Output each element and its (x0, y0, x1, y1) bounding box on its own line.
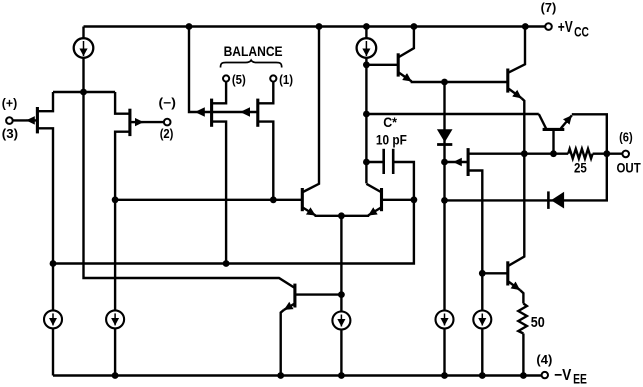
wire -Vee bottom rail (53, 374, 542, 376)
wire Q3 emitter (303, 208, 316, 216)
wire J4 source lead to pin 1 (258, 82, 274, 104)
wire Q5 emitter to rail (281, 310, 284, 376)
node rail-I5 junction (338, 372, 345, 379)
wire J1 gate lead (13, 119, 38, 121)
node B J4 drain junction (270, 196, 277, 203)
transistor Q6 bar (397, 53, 400, 76)
transistor Q7 bar (506, 69, 509, 93)
svg-text:10 pF: 10 pF (376, 132, 407, 147)
wire J5 gate lead (445, 161, 469, 163)
jfet J5 bar (467, 148, 470, 176)
node A J3 drain junction (223, 260, 230, 267)
jfet J4 gate arrow (240, 111, 251, 113)
wire R2 to -Vee rail (522, 334, 524, 376)
wire second stage emitter join left (315, 215, 342, 217)
current source I6 (436, 311, 454, 329)
node rail-I7 junction (479, 372, 486, 379)
terminal pin 2 (164, 119, 171, 126)
wire J3 source lead to pin 5 (212, 82, 227, 104)
node rail-Q6 junction (411, 23, 418, 30)
node Q5 base junction (338, 291, 345, 298)
jfet J4 bar (256, 99, 259, 127)
wire Q3 collector (303, 27, 319, 193)
wire Q7 emitter down to output node (522, 98, 525, 154)
wire tail node vertical to mirror (84, 92, 295, 288)
node J5 gate junction (441, 159, 448, 166)
svg-text:(4): (4) (536, 353, 552, 367)
svg-text:(6): (6) (619, 130, 633, 144)
wire +Vcc top rail (84, 25, 547, 27)
wire node B to Q3 base (115, 199, 302, 201)
wire node A feedback to cap (53, 162, 414, 264)
terminal pin 1 (270, 75, 276, 81)
wire J2 source lead (115, 92, 130, 114)
svg-text:(3): (3) (2, 127, 18, 141)
node output left junction (521, 150, 528, 157)
terminal pin 5 (223, 75, 229, 81)
transistor Q8 bar (543, 128, 565, 131)
svg-text:OUT: OUT (617, 161, 642, 176)
wire balance gate stem from rail (189, 27, 258, 113)
node output pin junction (603, 150, 610, 157)
jfet J5 gate arrow (453, 161, 462, 163)
svg-text:C*: C* (383, 115, 397, 130)
svg-text:CC: CC (574, 24, 589, 40)
wire J1 source lead (37, 92, 53, 111)
jfet J3 bar (210, 99, 213, 127)
transistor Q9 bar (506, 261, 509, 285)
svg-text:(+): (+) (2, 96, 17, 110)
wire Q8 emitter diagonal (561, 115, 572, 128)
wire J1 drain lead down to node (37, 128, 53, 375)
wire Q9 collector vertical (509, 154, 525, 266)
svg-text:(−): (−) (159, 96, 176, 110)
node rail-J2 junction (112, 372, 119, 379)
transistor Q3 bar (301, 188, 304, 211)
wire output line right to pin 6 (593, 152, 623, 154)
wire Q8 collector diagonal (539, 114, 546, 128)
node gain node junction (363, 111, 370, 118)
terminal pin 7 (545, 23, 552, 30)
svg-text:EE: EE (573, 370, 587, 386)
current source I1 (74, 38, 94, 58)
node Q6 base junction (363, 61, 370, 68)
diode D2 (548, 191, 564, 209)
wire diode D1 branch vertical (443, 82, 445, 376)
terminal pin 3 (6, 117, 13, 124)
wire Q4 collector (366, 184, 381, 192)
jfet J1 gate arrow (26, 119, 37, 121)
current source I7 (473, 311, 491, 329)
wire Q7 emitter (509, 89, 522, 99)
wire J2 gate lead (130, 121, 164, 123)
node tail bus junction (80, 89, 87, 96)
wire J4 drain lead down (258, 122, 274, 200)
balance brace (221, 60, 282, 67)
wire Q6 collector (399, 27, 414, 58)
current source I3 (44, 310, 62, 328)
transistor Q5 bar (293, 284, 296, 308)
wire current source I1 stem (82, 27, 84, 93)
wire Q9 base (482, 272, 508, 274)
svg-text:+V: +V (558, 19, 574, 36)
node B J2 drain junction (112, 196, 119, 203)
wire cap left lead (366, 161, 383, 163)
node D2 cathode junction (441, 197, 448, 204)
wire output line left (468, 152, 568, 154)
wire diode D2 branch (445, 154, 607, 201)
node rail-balance junction (186, 23, 193, 30)
current source I2 (357, 38, 377, 58)
capacitor C1 plates (384, 149, 394, 174)
wire Q9 emitter (509, 282, 521, 290)
wire Q6 emitter to Q7 base (411, 81, 508, 83)
node rail-Q7 junction (522, 23, 529, 30)
current source I4 (106, 310, 124, 328)
node D1 anode junction (441, 79, 448, 86)
node Q4 base junction (411, 196, 418, 203)
node second stage tail junction (338, 212, 345, 219)
svg-text:(7): (7) (541, 1, 557, 15)
diode D1 (437, 129, 453, 144)
jfet J1 bar (36, 107, 39, 133)
node Q8 base output junction (550, 150, 557, 157)
node rail-I2 junction (363, 23, 370, 30)
wire J2 drain lead down (115, 132, 130, 376)
terminal pin 4 (542, 372, 548, 378)
wire gain node horizontal (366, 113, 538, 115)
node rail-R2 junction (520, 372, 527, 379)
svg-text:−V: −V (554, 367, 572, 384)
wire J5 drain lead down (468, 171, 482, 376)
transistor Q4 bar (380, 188, 383, 211)
node rail-I6 junction (441, 372, 448, 379)
svg-text:BALANCE: BALANCE (224, 43, 283, 59)
svg-text:25: 25 (574, 160, 587, 176)
wire input JFET common source bus (53, 91, 115, 93)
node A J1 drain junction (50, 260, 57, 267)
svg-text:(5): (5) (232, 72, 246, 87)
wire Q7 collector (509, 27, 526, 73)
svg-text:(2): (2) (160, 127, 174, 141)
node rail-Q5 junction (277, 372, 284, 379)
svg-text:(1): (1) (279, 72, 293, 87)
wire Q5 base (295, 293, 342, 295)
jfet J3 gate arrow (195, 111, 206, 113)
terminal pin 6 (622, 151, 629, 158)
wire Q9 emitter to resistor R2 (520, 290, 523, 304)
jfet J2 bar (128, 109, 131, 136)
wire Q4 emitter (368, 208, 381, 216)
wire second stage emitter join right (341, 215, 369, 217)
resistor R1 25 ohm zigzag (568, 149, 592, 159)
resistor R2 50 ohm zigzag (518, 304, 527, 334)
wire second stage tail vertical (340, 216, 342, 376)
wire Q8 emitter to output (572, 114, 607, 153)
wire Q4 base (382, 199, 414, 201)
node cap left junction (363, 159, 370, 166)
node Q9 base junction (479, 270, 486, 277)
wire Q5 emitter (284, 304, 294, 310)
node rail-Q3 junction (316, 23, 323, 30)
wire Q8 base stem (552, 129, 554, 153)
jfet J2 gate arrow (130, 121, 144, 123)
wire Q6 base lead (366, 64, 398, 66)
svg-text:50: 50 (531, 315, 545, 331)
current source I5 (332, 312, 350, 330)
wire Q6 emitter (399, 73, 412, 82)
wire current source I2 stem (365, 27, 367, 184)
wire J3 drain lead down (212, 122, 227, 264)
